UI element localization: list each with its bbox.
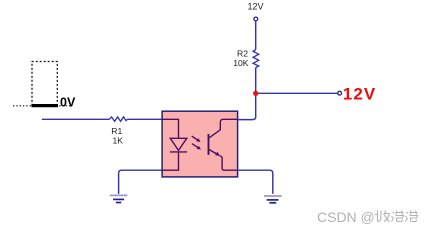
resistor R1 — [110, 117, 128, 121]
svg-text:12V: 12V — [247, 2, 263, 12]
watermark glyph shou — [375, 211, 390, 222]
wire output — [256, 92, 338, 94]
junction dot — [253, 91, 258, 96]
wire 12V down — [255, 21, 257, 50]
ground right — [264, 196, 282, 203]
wire junction to collector — [238, 93, 256, 119]
pulse source waveform — [13, 62, 70, 106]
svg-text:12V: 12V — [343, 85, 377, 104]
wire input right — [128, 118, 163, 120]
resistor R2 — [253, 50, 259, 68]
watermark glyph wan 2 — [406, 211, 418, 222]
svg-text:0V: 0V — [60, 95, 76, 109]
phototransistor emitter — [209, 150, 216, 154]
LED anode pin wire — [162, 119, 178, 138]
wire input left — [42, 118, 110, 120]
watermark glyph wan 1 — [392, 211, 404, 222]
svg-text:10K: 10K — [233, 58, 249, 68]
svg-text:CSDN @: CSDN @ — [317, 209, 375, 225]
light arrow 2 — [192, 144, 201, 150]
phototransistor base bar — [208, 134, 210, 155]
LED cathode bar — [170, 151, 187, 153]
power terminal 12V — [254, 17, 258, 21]
optocoupler U1 body — [162, 111, 238, 177]
light arrow 1 — [192, 136, 201, 142]
ground left — [110, 195, 128, 202]
wire LED cathode to ground — [119, 170, 163, 194]
wire emitter to ground — [238, 170, 273, 194]
LED D triangle — [170, 138, 187, 150]
wire R2 to junction — [255, 68, 257, 94]
LED cathode pin wire — [162, 152, 178, 170]
phototransistor collector — [209, 119, 237, 138]
output terminal — [338, 91, 342, 95]
svg-text:1K: 1K — [112, 136, 123, 146]
